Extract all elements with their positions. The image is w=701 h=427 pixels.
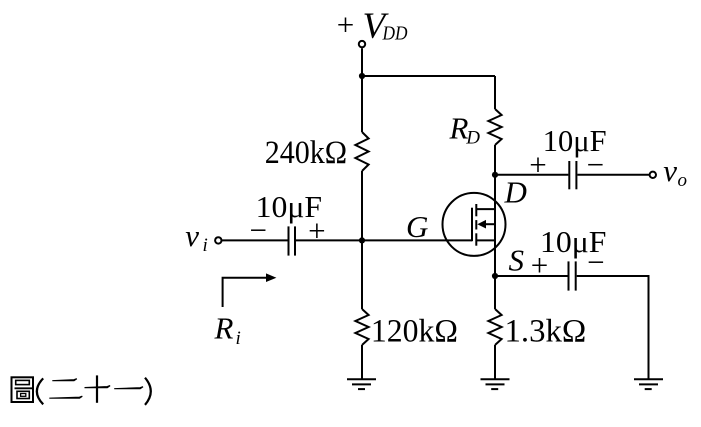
label 1.3k [505, 314, 587, 350]
node top junction [359, 73, 365, 79]
label vi [185, 218, 207, 256]
wire vi to input cap [222, 239, 288, 241]
svg-text:D: D [504, 174, 527, 209]
wire 120k bottom to ground [361, 345, 363, 379]
wire gate node to MOSFET gate [362, 239, 472, 241]
svg-text:−: − [250, 212, 267, 247]
resistor 240k zigzag [355, 132, 368, 171]
wire top junction down to 240k [361, 76, 363, 132]
Ri arrow [223, 273, 277, 307]
label 10uF input [256, 189, 322, 224]
label G [406, 209, 428, 244]
MOSFET Q1 [443, 193, 506, 256]
svg-text:i: i [203, 235, 208, 256]
capacitor bypass 10uF plates [569, 261, 576, 290]
svg-text:120kΩ: 120kΩ [371, 312, 458, 348]
node G junction [359, 237, 365, 243]
wire 1.3k bottom to ground [494, 345, 496, 379]
svg-text:v: v [185, 218, 199, 253]
label Ri [214, 311, 241, 349]
ground under 1.3k [481, 379, 510, 389]
resistor RD zigzag [488, 109, 501, 145]
label 10uF bypass [540, 224, 606, 259]
svg-text:DD: DD [382, 23, 409, 44]
label D [504, 174, 527, 209]
wire output cap to vo terminal [577, 174, 649, 176]
wire top horizontal [362, 75, 495, 77]
label S [509, 242, 525, 277]
svg-text:1.3kΩ: 1.3kΩ [505, 314, 587, 350]
label RD [449, 110, 481, 148]
svg-text:+: + [531, 248, 548, 283]
label plus input cap [308, 213, 325, 248]
capacitor output 10uF plates [569, 161, 576, 189]
node S junction [492, 273, 498, 279]
label plus bypass cap [531, 248, 548, 283]
svg-text:R: R [214, 311, 234, 346]
svg-text:+: + [337, 7, 354, 42]
wire S node to bypass cap [495, 275, 568, 277]
label vo [663, 153, 687, 191]
svg-text:240kΩ: 240kΩ [265, 134, 347, 170]
wire input cap to gate node [296, 239, 362, 241]
label figure caption 圖(二十一) drawn as strokes [12, 375, 151, 405]
glyph 十 [85, 375, 111, 402]
glyph 一 [114, 387, 143, 389]
ground under 120k [347, 379, 376, 389]
glyph 二 [49, 379, 82, 399]
resistor 1.3k zigzag [488, 309, 501, 345]
label minus bypass cap [587, 245, 604, 280]
glyph ) [145, 378, 151, 405]
capacitor input 10uF plates [289, 226, 296, 255]
vi terminal [215, 237, 221, 243]
svg-text:−: − [587, 245, 604, 280]
svg-text:−: − [587, 147, 604, 182]
glyph 圖 [12, 377, 34, 402]
wire D node to output cap [495, 174, 568, 176]
label minus input cap [250, 212, 267, 247]
svg-text:i: i [236, 328, 241, 349]
glyph ( [37, 378, 43, 404]
label plus output cap [529, 147, 546, 182]
node D junction [492, 172, 498, 178]
resistor 120k zigzag [355, 309, 368, 345]
vo terminal [650, 172, 656, 178]
wire VDD to RD [494, 76, 496, 109]
svg-text:v: v [663, 153, 677, 188]
ground far right [634, 379, 663, 389]
label minus output cap [587, 147, 604, 182]
svg-text:S: S [509, 242, 525, 277]
label 240k [265, 134, 347, 170]
wire VDD terminal to top junction [361, 48, 363, 76]
wire 240k bottom to gate node and down to 120k [361, 171, 363, 309]
label +VDD [337, 6, 408, 47]
VDD terminal [359, 41, 365, 47]
svg-text:G: G [406, 209, 428, 244]
svg-text:D: D [465, 128, 480, 149]
label 120k [371, 312, 458, 348]
svg-text:+: + [308, 213, 325, 248]
label 10uF output [543, 124, 607, 158]
svg-text:o: o [678, 170, 688, 191]
wire bypass cap right then down to ground [577, 276, 649, 379]
svg-text:+: + [529, 147, 546, 182]
wire RD bottom through transistor to 1.3k [494, 145, 496, 309]
